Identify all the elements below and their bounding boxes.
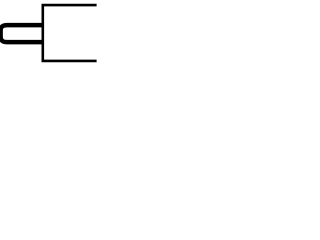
background: [0, 0, 99, 65]
connector body J1 (open rectangle, right side open): [43, 5, 97, 61]
plug pin P1 (rounded pill attached to body left edge): [1, 25, 44, 42]
